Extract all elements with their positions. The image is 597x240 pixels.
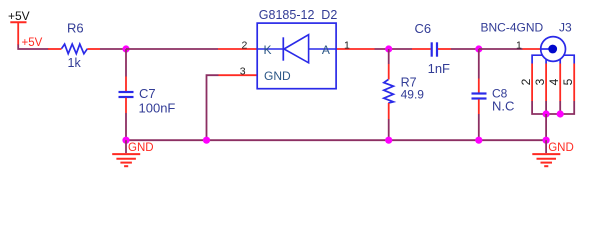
wire (pin3 to ground bus) (207, 75, 219, 140)
capacitor C7 (119, 77, 176, 116)
svg-text:1k: 1k (68, 56, 82, 70)
svg-text:N.C: N.C (492, 98, 514, 113)
wire (126, 48, 218, 50)
connector J3 pin 4 (547, 64, 561, 102)
svg-text:3: 3 (533, 78, 547, 85)
wire (18, 45, 48, 50)
ground bus wire (126, 139, 546, 141)
junction (203, 137, 210, 144)
svg-text:1nF: 1nF (428, 61, 450, 76)
connector J3 pin 3 (533, 64, 547, 102)
svg-text:C7: C7 (139, 86, 156, 101)
svg-text:+5V: +5V (8, 9, 30, 23)
photodiode D2 pin 1 (336, 39, 374, 51)
svg-text:3: 3 (240, 66, 246, 78)
svg-text:+5V: +5V (22, 37, 43, 49)
connector J3 pin 2 (519, 64, 533, 102)
ground GND right (532, 140, 573, 166)
svg-text:2: 2 (519, 78, 533, 85)
photodiode D2 pin 3 (219, 66, 258, 78)
svg-text:A: A (322, 43, 330, 57)
photodiode D2 pin 2 (218, 39, 257, 51)
svg-text:2: 2 (242, 39, 248, 51)
connector J3 body (532, 37, 574, 64)
svg-text:J3: J3 (559, 21, 572, 35)
connector J3 pin 1 (516, 39, 541, 51)
junction (122, 137, 129, 144)
wire (125, 49, 127, 77)
diode symbol (258, 48, 284, 50)
resistor R6 (48, 20, 100, 70)
wire (479, 48, 523, 50)
junction (385, 45, 392, 52)
wire (375, 48, 413, 50)
junction (475, 45, 482, 52)
power flag +5V (8, 9, 30, 45)
wire (125, 113, 127, 140)
svg-text:GND: GND (548, 142, 574, 154)
svg-text:G8185-12: G8185-12 (259, 8, 315, 22)
wire (pins join) (532, 101, 574, 114)
svg-text:BNC-4GND: BNC-4GND (481, 21, 544, 35)
wire (100, 48, 126, 50)
svg-text:5: 5 (561, 78, 575, 85)
svg-text:1: 1 (516, 39, 522, 51)
svg-text:C6: C6 (415, 21, 432, 36)
junction (122, 45, 129, 52)
photodiode D2 body (257, 8, 337, 89)
connector J3 pin 5 (561, 64, 575, 102)
junction (543, 137, 550, 144)
junction (475, 137, 482, 144)
svg-text:4: 4 (547, 78, 561, 85)
junction (385, 137, 392, 144)
junction (557, 110, 564, 117)
ground GND left (112, 140, 153, 166)
wire (545, 114, 547, 140)
svg-text:GND: GND (264, 69, 291, 83)
junction (543, 110, 550, 117)
capacitor C8 (472, 49, 515, 140)
svg-text:GND: GND (128, 142, 154, 154)
svg-text:K: K (264, 43, 272, 57)
svg-text:49.9: 49.9 (401, 87, 425, 101)
resistor R7 (384, 49, 424, 140)
svg-text:R6: R6 (67, 20, 84, 35)
svg-text:D2: D2 (321, 8, 337, 22)
capacitor C6 (412, 21, 451, 76)
svg-text:1: 1 (344, 39, 350, 51)
svg-text:100nF: 100nF (139, 100, 176, 115)
wire (451, 48, 479, 50)
